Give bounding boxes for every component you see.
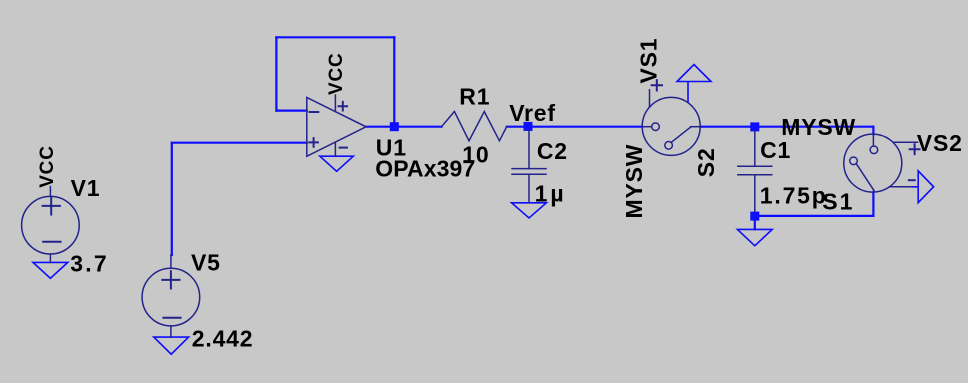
resistor R1 bbox=[442, 112, 507, 141]
ground rotated 90 at S1 control bbox=[912, 171, 934, 203]
ground below C2 bbox=[512, 203, 547, 218]
ground rotated 180 at S2 control bbox=[677, 65, 711, 104]
svg-text:C1: C1 bbox=[760, 137, 791, 163]
capacitor C2 bbox=[512, 131, 546, 203]
wire C1 bottom to S1 bottom bbox=[755, 215, 874, 217]
svg-text:VS2: VS2 bbox=[917, 130, 963, 156]
svg-text:V5: V5 bbox=[191, 250, 221, 276]
svg-text:OPAx397: OPAx397 bbox=[375, 156, 475, 182]
wire feedback right vertical bbox=[393, 37, 395, 126]
svg-text:10: 10 bbox=[462, 142, 489, 168]
svg-text:MYSW: MYSW bbox=[781, 114, 856, 140]
op-amp U1 bbox=[307, 95, 366, 156]
svg-text:1.75p: 1.75p bbox=[760, 183, 828, 209]
svg-text:1µ: 1µ bbox=[535, 181, 567, 207]
svg-text:MYSW: MYSW bbox=[621, 144, 647, 219]
switch S2 bbox=[642, 80, 700, 155]
wire into S1 top bbox=[872, 127, 874, 135]
wire C1 bottom junction to ground stem bbox=[754, 216, 756, 230]
svg-text:C2: C2 bbox=[537, 138, 568, 164]
wire V5 to opamp noninverting input bbox=[172, 142, 307, 144]
svg-text:VCC: VCC bbox=[326, 52, 347, 95]
svg-text:S1: S1 bbox=[822, 188, 854, 214]
junction C1 bottom bbox=[750, 212, 759, 221]
junction C1 top bbox=[750, 122, 759, 131]
svg-text:S2: S2 bbox=[693, 147, 719, 177]
junction node Vref bbox=[524, 122, 533, 131]
wire feedback top bbox=[276, 36, 394, 38]
capacitor C1 bbox=[738, 131, 772, 212]
ground below opamp U1 bbox=[320, 156, 353, 171]
svg-text:2.442: 2.442 bbox=[192, 325, 254, 351]
svg-text:R1: R1 bbox=[459, 83, 490, 109]
voltage source V1 bbox=[22, 187, 80, 263]
wire inverting input bbox=[276, 109, 306, 111]
switch S1 bbox=[844, 134, 920, 192]
wire up into S1 bottom bbox=[872, 192, 874, 216]
svg-text:VCC: VCC bbox=[37, 145, 58, 188]
ground below C1 bbox=[737, 229, 772, 245]
svg-text:V1: V1 bbox=[71, 175, 101, 201]
ground below V5 bbox=[154, 337, 189, 354]
voltage source V5 bbox=[142, 255, 200, 337]
wire V5 vertical bbox=[171, 143, 173, 255]
ground below V1 bbox=[33, 262, 68, 278]
junction at opamp output bbox=[390, 122, 399, 131]
wire opamp output to R1 bbox=[366, 126, 442, 128]
svg-text:Vref: Vref bbox=[509, 100, 556, 126]
svg-text:VS1: VS1 bbox=[635, 38, 661, 84]
svg-text:3.7: 3.7 bbox=[70, 250, 109, 276]
wire R1 to S2 (node Vref) bbox=[507, 126, 643, 128]
wire S2 to S1 top bbox=[700, 126, 873, 128]
wire feedback left vertical bbox=[275, 37, 277, 110]
